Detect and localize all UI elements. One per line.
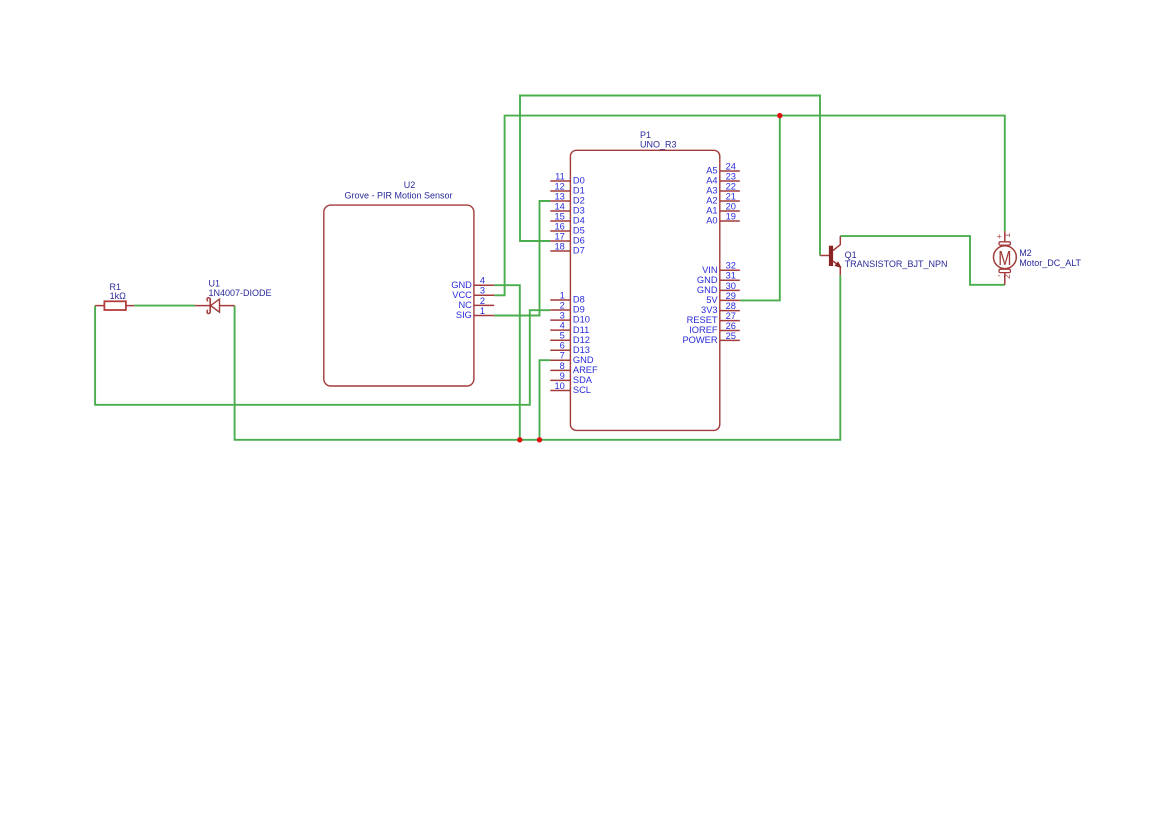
svg-text:3V3: 3V3 [701,305,718,315]
resistor R1 [95,301,134,310]
pin 9 SDA of P1 [550,371,593,385]
svg-text:1: 1 [480,306,485,316]
svg-text:D11: D11 [573,325,589,335]
svg-text:1kΩ: 1kΩ [110,291,127,301]
pin 14 D3 of P1 [550,201,584,215]
svg-text:20: 20 [726,201,736,211]
pin 17 D6 of P1 [550,231,584,245]
junction dot: PIR GND on ground rail [517,437,522,442]
svg-text:D6: D6 [573,236,585,246]
pin 20 A1 of P1 [706,201,740,215]
pin 5 D12 of P1 [550,331,590,345]
wire net GND: UNO GND pin 7 down to ground rail [540,360,551,440]
wire net GND: PIR GND down to ground rail [494,285,520,440]
svg-text:16: 16 [554,221,564,231]
svg-text:D4: D4 [573,216,585,226]
pin 21 A2 of P1 [706,191,740,205]
motor M2 pin 2 (-) marks [998,270,1012,280]
svg-text:D13: D13 [573,345,590,355]
wire net R1 left to D9 [95,306,550,405]
svg-text:14: 14 [554,201,564,211]
pin 25 POWER of P1 [682,331,739,345]
svg-text:7: 7 [560,351,565,361]
svg-text:32: 32 [726,261,736,271]
svg-text:NC: NC [458,300,472,310]
pin 18 D7 of P1 [550,241,584,255]
pin 2 NC of U2 [458,296,494,310]
wire R1 to U1 anode [134,305,195,307]
svg-text:11: 11 [555,171,565,181]
wire net Q1 collector to motor pin 2 [840,236,1005,285]
svg-text:SDA: SDA [573,375,593,385]
svg-text:22: 22 [726,181,736,191]
svg-text:D8: D8 [573,295,585,305]
pin 12 D1 of P1 [550,181,584,195]
svg-text:A5: A5 [706,166,717,176]
pin 4 GND of U2 [451,276,494,290]
svg-text:M2: M2 [1019,248,1032,258]
svg-text:D3: D3 [573,206,585,216]
svg-text:UNO_R3: UNO_R3 [640,140,677,150]
pin 6 D13 of P1 [550,341,590,355]
svg-text:27: 27 [726,311,736,321]
svg-text:15: 15 [554,211,564,221]
pin 8 AREF of P1 [550,361,598,375]
svg-text:29: 29 [726,291,736,301]
pin 30 GND of P1 [697,281,740,295]
svg-text:6: 6 [560,341,565,351]
pin 16 D5 of P1 [550,221,584,235]
svg-text:D12: D12 [573,335,590,345]
svg-text:VIN: VIN [702,265,718,275]
svg-text:IOREF: IOREF [689,325,718,335]
pin 27 RESET of P1 [687,311,740,325]
motor M2 pin 1 (+) marks [997,231,1012,241]
junction dot: UNO GND on ground rail [537,437,542,442]
pin 29 5V of P1 [706,291,740,305]
diode U1 (1N4007) [195,298,235,314]
pin 4 D11 of P1 [550,321,589,335]
svg-text:4: 4 [560,321,565,331]
svg-text:SCL: SCL [573,385,591,395]
wire net D6: top loop to transistor base [520,96,820,256]
pin 10 SCL of P1 [550,381,591,395]
svg-text:1: 1 [1002,233,1012,238]
svg-text:13: 13 [554,191,564,201]
pin 26 IOREF of P1 [689,321,740,335]
svg-text:A0: A0 [706,216,717,226]
svg-text:SIG: SIG [456,310,472,320]
svg-text:D7: D7 [573,246,585,256]
svg-text:2: 2 [560,300,565,310]
pin 22 A3 of P1 [706,181,740,195]
pin 3 D10 of P1 [550,311,590,325]
pin 13 D2 of P1 [550,191,584,205]
transistor Q1 base stub [820,255,829,257]
svg-text:Motor_DC_ALT: Motor_DC_ALT [1019,258,1081,268]
svg-text:U1: U1 [209,279,221,289]
pin 19 A0 of P1 [706,211,740,225]
svg-text:A1: A1 [706,206,717,216]
svg-text:19: 19 [726,211,736,221]
svg-text:GND: GND [697,275,718,285]
svg-text:D5: D5 [573,226,585,236]
svg-text:31: 31 [726,271,736,281]
svg-text:D9: D9 [573,305,585,315]
motor M2 body [994,231,1017,285]
svg-text:25: 25 [726,331,736,341]
svg-text:12: 12 [554,181,564,191]
svg-text:D10: D10 [573,315,590,325]
svg-text:10: 10 [554,381,564,391]
svg-text:A2: A2 [706,196,717,206]
junction dot: 5V rail [777,113,782,118]
wire net 5V: UNO 5V pin up to top rail [740,116,780,301]
svg-text:21: 21 [726,191,736,201]
svg-text:D0: D0 [573,176,585,186]
wire net SIG to D2 [494,201,550,316]
svg-text:D2: D2 [573,196,585,206]
svg-text:3: 3 [480,286,485,296]
svg-text:1: 1 [560,290,565,300]
pin 24 A5 of P1 [706,161,740,175]
svg-text:9: 9 [560,371,565,381]
svg-text:VCC: VCC [452,290,472,300]
svg-text:26: 26 [726,321,736,331]
svg-text:23: 23 [726,171,736,181]
svg-text:18: 18 [554,241,564,251]
svg-text:5V: 5V [706,295,718,305]
pin 15 D4 of P1 [550,211,584,225]
PIR sensor U2 body [324,205,474,386]
svg-text:30: 30 [726,281,736,291]
transistor Q1 body [829,236,841,275]
wire ground rail: diode cathode to Q1 emitter [235,275,841,440]
pin 23 A4 of P1 [706,171,740,185]
svg-text:U2: U2 [404,180,416,190]
svg-text:2: 2 [1002,274,1012,279]
svg-text:P1: P1 [640,130,651,140]
svg-text:2: 2 [480,296,485,306]
svg-text:4: 4 [480,276,485,286]
svg-text:M: M [998,247,1011,270]
Arduino Uno P1 body [570,150,719,430]
pin 2 D9 of P1 [550,300,584,314]
svg-text:POWER: POWER [682,335,717,345]
svg-text:RESET: RESET [687,315,718,325]
pin 7 GND of P1 [550,351,594,365]
wire net 5V/VCC: PIR VCC to top rail to motor pin 1 [494,116,1005,296]
svg-text:A3: A3 [706,186,717,196]
pin 1 SIG of U2 [456,306,494,320]
pin 11 D0 of P1 [550,171,584,185]
svg-text:5: 5 [560,331,565,341]
svg-text:17: 17 [554,231,564,241]
pin 1 D8 of P1 [550,290,584,304]
pin 28 3V3 of P1 [701,301,740,315]
svg-text:TRANSISTOR_BJT_NPN: TRANSISTOR_BJT_NPN [845,259,948,269]
svg-text:1N4007-DIODE: 1N4007-DIODE [209,288,272,298]
svg-text:GND: GND [573,355,594,365]
pin 31 GND of P1 [697,271,740,285]
svg-text:8: 8 [560,361,565,371]
pin 32 VIN of P1 [702,261,740,275]
svg-text:28: 28 [726,301,736,311]
svg-text:AREF: AREF [573,365,598,375]
svg-text:3: 3 [560,311,565,321]
svg-text:Grove - PIR Motion Sensor: Grove - PIR Motion Sensor [345,191,453,201]
svg-text:A4: A4 [706,176,717,186]
svg-text:GND: GND [697,285,718,295]
pin 3 VCC of U2 [452,286,494,300]
svg-text:GND: GND [451,280,472,290]
svg-text:-: - [998,270,1001,280]
svg-text:24: 24 [726,161,736,171]
svg-text:D1: D1 [573,186,585,196]
